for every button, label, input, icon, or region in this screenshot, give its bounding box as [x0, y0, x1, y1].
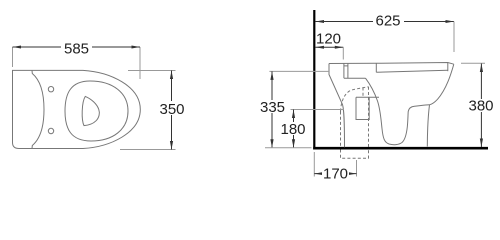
pan top edge	[329, 63, 454, 65]
dim 170 extension right	[356, 160, 358, 177]
floor	[313, 147, 488, 150]
svg-text:180: 180	[280, 121, 305, 138]
dim 335 line	[271, 71, 273, 147]
outlet dashed box below floor	[341, 150, 369, 159]
svg-text:350: 350	[159, 101, 184, 118]
dim 170 extension left	[313, 152, 315, 177]
spud box	[356, 97, 379, 119]
pan outer front curve + pedestal	[430, 64, 454, 105]
trap hidden outline (dashed)	[341, 87, 369, 112]
pan back waist arc	[32, 70, 44, 148]
floor level extension	[265, 147, 312, 149]
dim 625 line	[316, 21, 455, 23]
svg-text:120: 120	[316, 31, 341, 48]
water area D shape	[82, 96, 99, 125]
dim 350 extension line bottom	[120, 149, 176, 151]
pedestal front edge	[427, 105, 429, 147]
svg-text:170: 170	[323, 166, 348, 183]
trap right dashed vertical	[368, 87, 370, 147]
dim 120 line	[316, 46, 344, 48]
dim 585 line	[13, 46, 141, 48]
dim 380 line	[480, 64, 482, 148]
dim 350 line	[171, 71, 173, 150]
trap left dashed vertical	[340, 112, 342, 148]
pan back edge	[329, 64, 345, 148]
bowl inner curve	[366, 78, 409, 145]
dim 180 line	[293, 110, 295, 148]
bowl inner rim oval	[65, 81, 128, 141]
svg-text:625: 625	[375, 13, 400, 30]
dim 170 line	[314, 173, 356, 175]
rim bottom line	[376, 70, 448, 72]
dim 380 extension top	[461, 62, 485, 64]
dim 120 extension right	[342, 47, 344, 59]
dim 625 extension right	[453, 22, 455, 53]
svg-text:380: 380	[468, 98, 493, 115]
dim 335 extension top	[269, 70, 329, 72]
seat bolt hole bottom	[48, 128, 53, 133]
dim 350 extension line top	[128, 70, 176, 72]
flush housing bottom	[344, 77, 366, 79]
svg-text:335: 335	[260, 99, 285, 116]
wall	[313, 10, 315, 150]
rim end cap	[447, 63, 449, 72]
flush pipe inlet box	[344, 63, 348, 78]
pan outer outline (top view)	[13, 70, 141, 148]
rim step	[375, 63, 377, 72]
seat bolt hole top	[48, 87, 53, 92]
dim 585 extension line left	[12, 47, 14, 67]
dim 180 extension top	[291, 109, 345, 111]
dim 585 extension line right	[139, 47, 141, 79]
svg-text:585: 585	[64, 41, 89, 58]
bowl inner curl	[408, 105, 429, 112]
short dashed vertical	[362, 88, 364, 98]
